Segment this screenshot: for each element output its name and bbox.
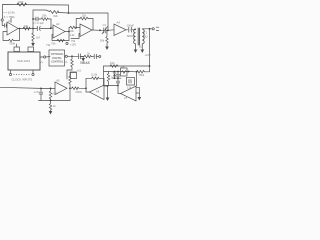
svg-text:A4: A4 — [117, 21, 121, 25]
node c1 top — [117, 71, 119, 73]
wire long to A4 input — [69, 13, 109, 30]
terminal bias row — [99, 56, 101, 58]
capacitor bias — [78, 54, 80, 59]
supply arrow down — [31, 43, 35, 47]
wire ladder left vertical — [103, 66, 105, 86]
resistor ladder vertical — [107, 72, 109, 86]
transformer T1 primary — [134, 29, 136, 44]
svg-text:1M: 1M — [36, 36, 41, 40]
pin dots row — [14, 74, 30, 75]
svg-text:A5: A5 — [56, 79, 60, 83]
op-amp A3 — [80, 24, 92, 37]
svg-text:A6: A6 — [96, 90, 100, 94]
trimmer box 2 — [28, 47, 34, 52]
diode ladder — [113, 72, 116, 74]
svg-text:10k: 10k — [70, 29, 75, 33]
resistor 50k vertical — [106, 30, 108, 46]
wire A6 top right — [104, 85, 108, 87]
wire node X vertical — [32, 19, 34, 33]
node X upper — [32, 18, 34, 20]
svg-text:A2: A2 — [56, 22, 60, 26]
wire A6 feedback up — [86, 78, 92, 88]
node res tap — [50, 88, 52, 90]
input terminal — [1, 19, 3, 21]
svg-text:CLOCK INPUTS: CLOCK INPUTS — [12, 78, 33, 82]
svg-text:2 x 0.1µF: 2 x 0.1µF — [33, 21, 44, 25]
wire ladder bottom — [104, 85, 119, 87]
capacitor input — [4, 24, 6, 28]
node A2 out — [68, 31, 70, 33]
node cap tap — [40, 88, 42, 90]
node right — [149, 65, 151, 67]
svg-text:10k: 10k — [121, 65, 126, 69]
wire 750k left down to A7 — [136, 72, 138, 86]
node A3 inv — [75, 27, 77, 29]
wire to 750k — [129, 71, 137, 73]
svg-text:A7: A7 — [124, 96, 128, 100]
svg-text:▪ = 10.9k: ▪ = 10.9k — [4, 11, 16, 15]
node output — [149, 28, 151, 30]
svg-text:600Ω: 600Ω — [127, 34, 134, 38]
resistor to A3 — [70, 26, 76, 29]
resistor below bottom — [49, 101, 51, 112]
node A3 out — [99, 29, 101, 31]
wire ladder mid row — [104, 71, 130, 73]
output jack — [152, 28, 154, 30]
resistor bias vertical — [67, 56, 73, 79]
primary bottom arrow — [135, 44, 137, 50]
node bias — [71, 55, 73, 57]
svg-text:VBIAS: VBIAS — [80, 61, 90, 65]
wire 750k right up — [145, 71, 150, 73]
svg-text:+15V: +15V — [70, 43, 76, 47]
wire A2 bottom feedback — [52, 32, 69, 41]
boxed resistor — [121, 68, 128, 76]
wire to cap — [72, 55, 78, 57]
wire ladder row2 — [113, 77, 122, 79]
svg-text:25k: 25k — [42, 14, 47, 18]
supply terminal +15 — [66, 42, 68, 44]
wire from terminal — [67, 55, 72, 57]
supply arrow below cap — [81, 55, 84, 57]
capacitor bias row — [93, 54, 95, 58]
wire A2 out — [65, 31, 69, 33]
wire top feedback — [3, 5, 69, 19]
node A6 in — [85, 87, 87, 89]
node A4 in — [107, 29, 109, 31]
box on bias — [71, 73, 77, 79]
output marks — [156, 26, 159, 28]
wire to A3 — [76, 27, 80, 29]
power stub — [10, 18, 12, 23]
capacitor ladder v2 — [117, 78, 119, 81]
svg-text:8Ω: 8Ω — [139, 45, 142, 49]
trimmer box 1 — [14, 47, 20, 52]
svg-text:11.8k: 11.8k — [91, 73, 98, 77]
wire — [5, 25, 8, 27]
resistor R-100k — [17, 3, 27, 6]
svg-text:4.7k: 4.7k — [34, 90, 40, 94]
wire to node — [59, 12, 69, 15]
wire to A6 node — [79, 87, 86, 89]
node A6 gnd — [107, 85, 109, 87]
box2 cap — [127, 78, 135, 86]
optional digital control box — [49, 50, 65, 66]
node bottom — [50, 100, 52, 102]
supply arrow down — [105, 47, 109, 51]
labels — [4, 0, 151, 108]
svg-text:10k: 10k — [110, 61, 115, 65]
svg-text:73k: 73k — [46, 43, 51, 47]
resistor 1M vertical — [32, 33, 34, 43]
supply arrow bottom — [49, 111, 53, 115]
svg-text:100k: 100k — [18, 0, 25, 4]
bias network row — [80, 56, 84, 58]
wire A3 plus input — [71, 33, 80, 38]
svg-text:CONTROL: CONTROL — [51, 61, 64, 64]
svg-text:C4: C4 — [103, 23, 107, 27]
svg-text:0.1: 0.1 — [64, 60, 68, 64]
ground arrow A6 — [107, 86, 109, 98]
svg-text:+15: +15 — [77, 69, 82, 73]
svg-text:75k: 75k — [71, 39, 76, 43]
svg-text:75k: 75k — [51, 42, 56, 46]
op-amp A5 — [55, 82, 67, 95]
wire B from node X up — [33, 10, 50, 19]
svg-text:OPTIONAL: OPTIONAL — [51, 53, 64, 56]
svg-text:50k: 50k — [100, 39, 105, 43]
wire A3 feedback up — [76, 19, 80, 28]
wire apex A6 — [86, 88, 90, 92]
box right terminal — [65, 55, 67, 57]
wire input — [2, 21, 4, 25]
wire A6 feedback right — [99, 78, 104, 85]
wire lower branch — [40, 28, 50, 30]
secondary bottom arrow — [141, 44, 143, 50]
capacitor lower branch — [36, 26, 38, 30]
svg-text:750k: 750k — [9, 42, 16, 46]
IC Vdd wire — [40, 56, 44, 58]
op-amp A1 — [7, 22, 18, 35]
Vdd circle — [44, 56, 46, 58]
wire A3 feedback right — [88, 19, 93, 31]
resistor 750k row — [137, 70, 145, 73]
resistor feedback A1 — [9, 39, 14, 42]
IC SAD-1024 body — [8, 52, 40, 70]
svg-text:10k: 10k — [24, 24, 29, 28]
svg-text:4.3k: 4.3k — [70, 33, 76, 37]
resistor A3 feedback 12k — [80, 17, 88, 20]
wire apex A7 — [118, 86, 121, 94]
resistor A6 feedback — [92, 77, 100, 80]
stub box1 — [16, 44, 18, 47]
resistor feedback top — [50, 11, 59, 14]
long wire input lower — [0, 87, 55, 88]
node A5 out — [69, 87, 71, 89]
bottom wire A5 — [39, 88, 71, 100]
wire A5 out up — [69, 84, 71, 88]
capacitor ladder v1 — [117, 72, 119, 75]
svg-text:0.01: 0.01 — [53, 92, 59, 96]
wire A4 in — [108, 29, 114, 32]
wire A4 out — [126, 29, 128, 31]
resistor A2 feedback — [57, 39, 65, 42]
resistor upper branch — [38, 18, 51, 21]
op-amp A4 — [114, 24, 126, 36]
svg-text:12k: 12k — [127, 86, 132, 90]
wire A2 to A3 — [68, 28, 71, 32]
wire output feedback down — [149, 29, 151, 66]
resistor A5 out — [70, 87, 79, 90]
wire to control box — [46, 56, 50, 59]
resistor A5 up — [69, 72, 77, 84]
resistor ladder 10k — [110, 65, 118, 68]
wire secondary to jack — [142, 28, 152, 30]
capacitor upper branch — [35, 17, 37, 21]
svg-text:12k: 12k — [82, 14, 87, 18]
wire A1 feedback — [14, 29, 20, 41]
node 750k left — [136, 71, 138, 73]
op-amp A2 — [53, 25, 65, 38]
wire to A2 inv — [51, 19, 53, 28]
svg-text:750k: 750k — [139, 73, 145, 77]
svg-text:8Ω: 8Ω — [144, 35, 147, 39]
resistor to bottom — [49, 88, 51, 100]
svg-text:82k: 82k — [54, 14, 59, 18]
svg-text:V+: V+ — [40, 60, 44, 64]
capacitor to bottom — [40, 88, 42, 91]
pin circle left — [9, 73, 11, 75]
svg-text:+15V: +15V — [145, 53, 151, 57]
node apex A7 — [117, 85, 119, 87]
node X lower — [32, 28, 34, 30]
wire ladder top — [104, 65, 150, 67]
svg-text:600Ω: 600Ω — [76, 90, 82, 94]
pin circle right — [32, 73, 34, 75]
resistor bias row — [84, 55, 94, 58]
node A1 out — [19, 28, 21, 30]
op-amp A7 left-pointing — [121, 86, 137, 101]
transformer T1 secondary — [142, 29, 144, 44]
wire A1 feedback left — [3, 32, 9, 41]
transformer core — [137, 28, 139, 45]
svg-text:DIGITAL: DIGITAL — [52, 57, 62, 60]
svg-text:SAD-1024: SAD-1024 — [17, 59, 30, 63]
capacitor output polarized — [128, 27, 130, 32]
node A2 inv — [50, 27, 52, 29]
node box right — [128, 71, 130, 73]
wire A3 out — [92, 29, 100, 31]
wire A1 out — [18, 28, 33, 30]
op-amp A6 left-pointing — [90, 85, 105, 100]
svg-text:100µF: 100µF — [127, 24, 135, 28]
trimmer capacitor — [103, 28, 105, 33]
wire to transformer — [132, 28, 136, 31]
resistor 10k — [23, 27, 30, 30]
ground stub A7 — [136, 87, 139, 97]
node d1 top — [114, 71, 116, 73]
svg-text:A1: A1 — [8, 19, 12, 23]
node junction — [68, 12, 70, 14]
